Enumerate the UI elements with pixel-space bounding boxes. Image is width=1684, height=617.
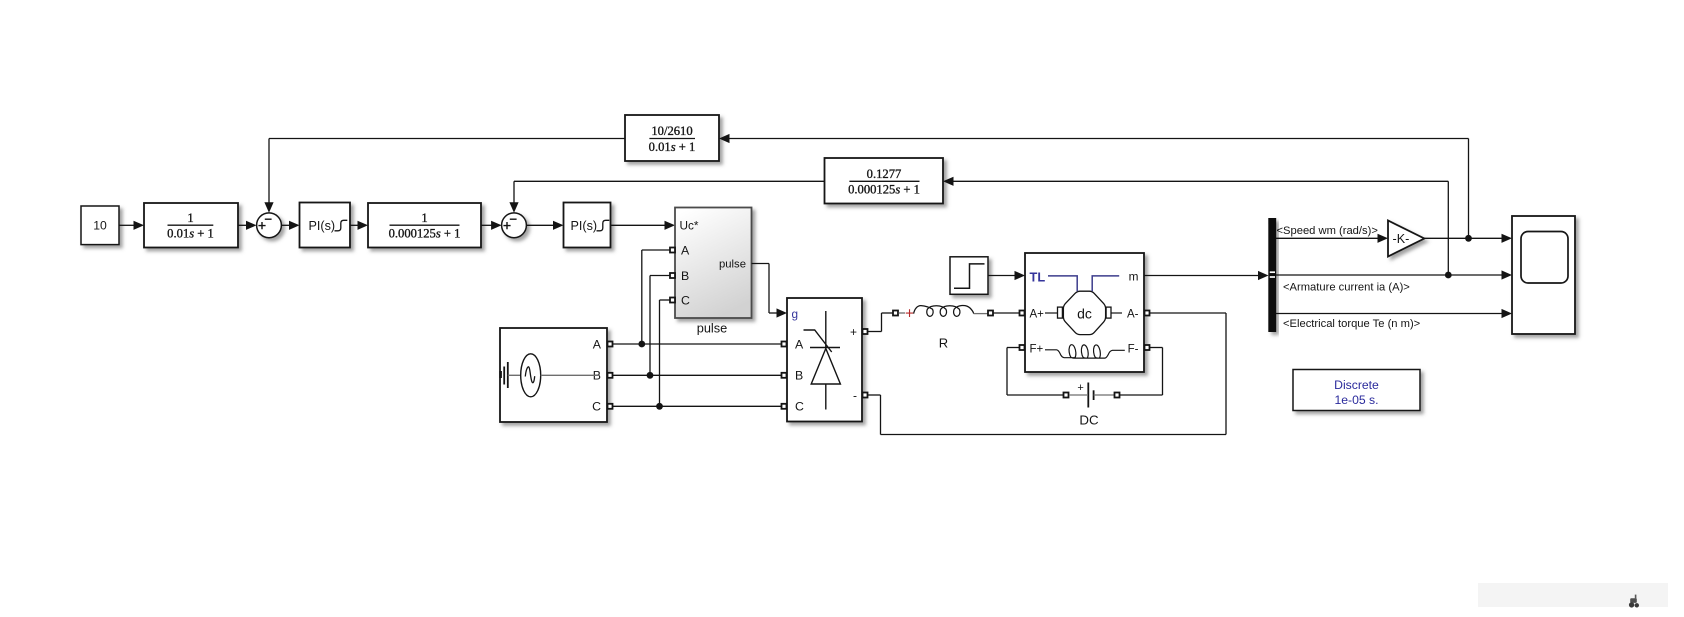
wire: DC machine F+ to battery + — [1007, 348, 1063, 396]
svg-text:A: A — [681, 244, 690, 258]
brushes — [1058, 307, 1063, 318]
wire: DC machine A- loop back to converter minus — [868, 313, 1226, 435]
svg-text:TL: TL — [1030, 269, 1046, 284]
svg-text:1e-05 s.: 1e-05 s. — [1334, 393, 1378, 407]
feedback transfer function FB1 10/2610/(0.01s+1) — [625, 115, 719, 161]
svg-text:DC: DC — [1079, 412, 1099, 427]
svg-text:m: m — [1129, 270, 1139, 284]
DC source battery — [1064, 382, 1120, 427]
wire: TF1 to sum S1 — [238, 221, 257, 230]
svg-text:Discrete: Discrete — [1334, 378, 1379, 392]
transfer function TF1 1/(0.01s+1) — [144, 203, 238, 248]
svg-text:g: g — [792, 307, 799, 321]
wire: source A to converter A (with tap to pulse A) — [613, 250, 781, 347]
svg-text:C: C — [592, 400, 601, 414]
svg-text:0.01s + 1: 0.01s + 1 — [649, 140, 696, 154]
svg-text:+: + — [905, 306, 914, 323]
svg-text:1: 1 — [421, 211, 427, 225]
gain -K- — [1388, 221, 1424, 257]
DC machine port squares A+,F+ (left) A-,F- (right) — [1020, 311, 1150, 351]
wire: S1 to PI1 — [281, 221, 299, 230]
svg-text:0.01s + 1: 0.01s + 1 — [167, 227, 214, 241]
armature octagon with dc text — [1063, 291, 1105, 334]
svg-text:C: C — [681, 294, 690, 308]
svg-text:PI(s): PI(s) — [571, 219, 598, 233]
svg-text:A: A — [795, 337, 804, 351]
step block (load torque) — [950, 257, 988, 295]
wire: PI1 to TF2 — [350, 221, 368, 230]
svg-text:-K-: -K- — [1393, 232, 1410, 246]
wire: bus torque output to scope input 3 — [1276, 309, 1512, 318]
wire: armature current tap to FB2 input — [943, 177, 1448, 275]
svg-text:0.1277: 0.1277 — [867, 167, 902, 181]
bus selector (black bar) — [1268, 218, 1276, 332]
faint watermark band bottom right — [1478, 583, 1668, 607]
wire: converter + output to series RL branch — [868, 313, 893, 332]
svg-text:+: + — [850, 325, 857, 339]
svg-text:F+: F+ — [1030, 343, 1044, 355]
svg-text:0.000125s + 1: 0.000125s + 1 — [389, 227, 461, 241]
wire: bus speed output to gain — [1276, 234, 1388, 243]
converter port squares A,B,C (left) and +,- (right) — [782, 329, 868, 409]
TL blue link wires — [1048, 276, 1077, 291]
PI controller PI2 — [564, 203, 611, 248]
converter internal thyristor symbol — [804, 311, 841, 410]
sum junction S1 (+ -) — [257, 213, 282, 238]
svg-text:0.000125s + 1: 0.000125s + 1 — [848, 183, 920, 197]
wire: RL branch to DC machine A+ — [994, 312, 1020, 314]
wire: constant to TF1 — [119, 221, 144, 230]
svg-text:pulse: pulse — [719, 259, 746, 271]
subsystem "pulse" (gate pulse generator) — [675, 208, 752, 319]
transfer function TF2 1/(0.000125s+1) — [368, 203, 481, 248]
series RL branch R — [893, 305, 993, 350]
PI controller PI1 — [300, 203, 351, 248]
wire: speed feedback tap to FB1 input — [719, 134, 1469, 238]
svg-text:A: A — [593, 337, 602, 351]
wire: gain to scope input 1 (with feedback tap junction) — [1424, 234, 1512, 243]
wire: PI2 to pulse subsystem input Uc* — [611, 221, 676, 230]
svg-text:C: C — [795, 400, 804, 414]
svg-text:+: + — [1077, 382, 1083, 394]
scope block — [1512, 216, 1575, 334]
svg-text:A-: A- — [1127, 309, 1139, 321]
A+ / A- leads — [1045, 312, 1058, 314]
svg-text:PI(s): PI(s) — [309, 219, 336, 233]
svg-text:-: - — [853, 388, 857, 402]
svg-text:A+: A+ — [1030, 309, 1045, 321]
svg-text:10/2610: 10/2610 — [651, 124, 692, 138]
pulse subsystem input port squares A,B,C — [670, 248, 675, 303]
powergui block Discrete 1e-05 s. — [1293, 370, 1420, 411]
wire: FB2 output to S2 top input — [509, 181, 824, 213]
svg-text:Uc*: Uc* — [680, 219, 699, 233]
wire: FB1 output to S1 top input — [264, 139, 625, 213]
svg-text:<Armature current ia (A)>: <Armature current ia (A)> — [1283, 282, 1410, 294]
svg-text:R: R — [939, 336, 948, 351]
svg-text:dc: dc — [1077, 306, 1092, 322]
DC machine block — [1025, 253, 1144, 372]
feedback transfer function FB2 0.1277/(0.000125s+1) — [825, 158, 944, 204]
wire: bus armature current to scope input 2 (with feedback tap junction) — [1276, 270, 1512, 279]
source internal: ground plates — [499, 362, 508, 388]
source output port squares A,B,C — [608, 342, 613, 409]
wire: source C to converter C (with tap to pulse C) — [613, 300, 781, 410]
svg-text:F-: F- — [1128, 343, 1139, 355]
svg-text:<Electrical torque Te (n m)>: <Electrical torque Te (n m)> — [1283, 318, 1420, 330]
svg-text:10: 10 — [93, 219, 107, 233]
svg-text:<Speed wm (rad/s)>: <Speed wm (rad/s)> — [1277, 225, 1378, 237]
svg-text:1: 1 — [187, 211, 193, 225]
svg-text:B: B — [795, 369, 803, 383]
watermark glyph bottom right — [1629, 595, 1639, 608]
sum junction S2 (+ -) — [502, 213, 527, 238]
wire: step to DC machine TL — [988, 271, 1025, 280]
wire: S2 to PI2 — [526, 221, 563, 230]
wire: DC machine m output to bus selector — [1144, 271, 1269, 280]
wire: pulse output to converter gate g — [752, 264, 788, 318]
three-phase programmable voltage source — [500, 328, 607, 422]
svg-text:B: B — [681, 269, 689, 283]
constant block "10" — [81, 206, 119, 245]
wire: TF2 to sum S2 — [481, 221, 502, 230]
source internal: sine source ellipse — [508, 354, 600, 397]
wire: DC machine F- to battery - — [1120, 348, 1163, 396]
svg-text:pulse: pulse — [697, 321, 728, 336]
DC machine labels and internals — [1030, 269, 1139, 358]
wire: source B to converter B (with tap to pulse B) — [613, 276, 781, 379]
thyristor converter block — [787, 298, 862, 422]
field winding coil — [1045, 345, 1125, 358]
